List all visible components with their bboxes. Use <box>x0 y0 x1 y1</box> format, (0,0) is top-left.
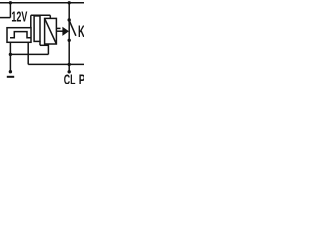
node dot bottom of contact <box>68 39 71 42</box>
wire horizontal mid top <box>31 14 51 16</box>
resistor R1 body <box>34 16 40 42</box>
wire horizontal exiting left edge <box>0 17 10 19</box>
node dot top of contact <box>68 18 71 21</box>
ground bar <box>7 76 14 78</box>
wire vertical from pulse box bottom mid <box>27 42 29 64</box>
pulse generator V1 box <box>7 28 31 43</box>
diode D1 triangle <box>63 27 69 35</box>
wire horizontal bottom <box>28 63 84 65</box>
svg-text:12V: 12V <box>11 10 27 26</box>
wire resistor to coil stub <box>40 44 48 46</box>
node junction dot on left vertical <box>9 53 12 56</box>
wire top supply rail <box>0 2 84 4</box>
relay coil K box <box>45 18 57 44</box>
svg-text:CL: CL <box>64 72 76 84</box>
relay coil diagonal <box>45 18 57 44</box>
coil upper right stub lead <box>56 27 60 29</box>
node junction dot left on rail <box>9 1 12 4</box>
wire from resistor bottom right down <box>39 41 41 45</box>
wire vertical from pulse box bottom left to ground <box>9 42 11 72</box>
wire vertical from left rail dot <box>9 3 11 18</box>
node terminal dot end of right branch <box>68 70 71 73</box>
wire from pulse box top right corner up <box>30 15 32 27</box>
wire vertical right branch lower <box>68 40 70 72</box>
wire horizontal from left dot to coil bottom corner <box>10 53 48 55</box>
wire vertical right branch upper <box>68 3 70 41</box>
wire vertical up to coil bottom <box>47 44 49 54</box>
pulse waveform symbol inside source <box>10 32 31 38</box>
svg-text:P: P <box>79 72 84 84</box>
diode D1 anode lead <box>56 30 62 32</box>
node junction dot right on rail <box>68 1 71 4</box>
node junction dot bottom wire <box>68 63 71 66</box>
wire stub into relay coil top <box>49 15 51 18</box>
node terminal dot above ground <box>9 70 12 73</box>
svg-text:K: K <box>78 22 84 41</box>
relay contact blade diagonal <box>69 21 76 36</box>
